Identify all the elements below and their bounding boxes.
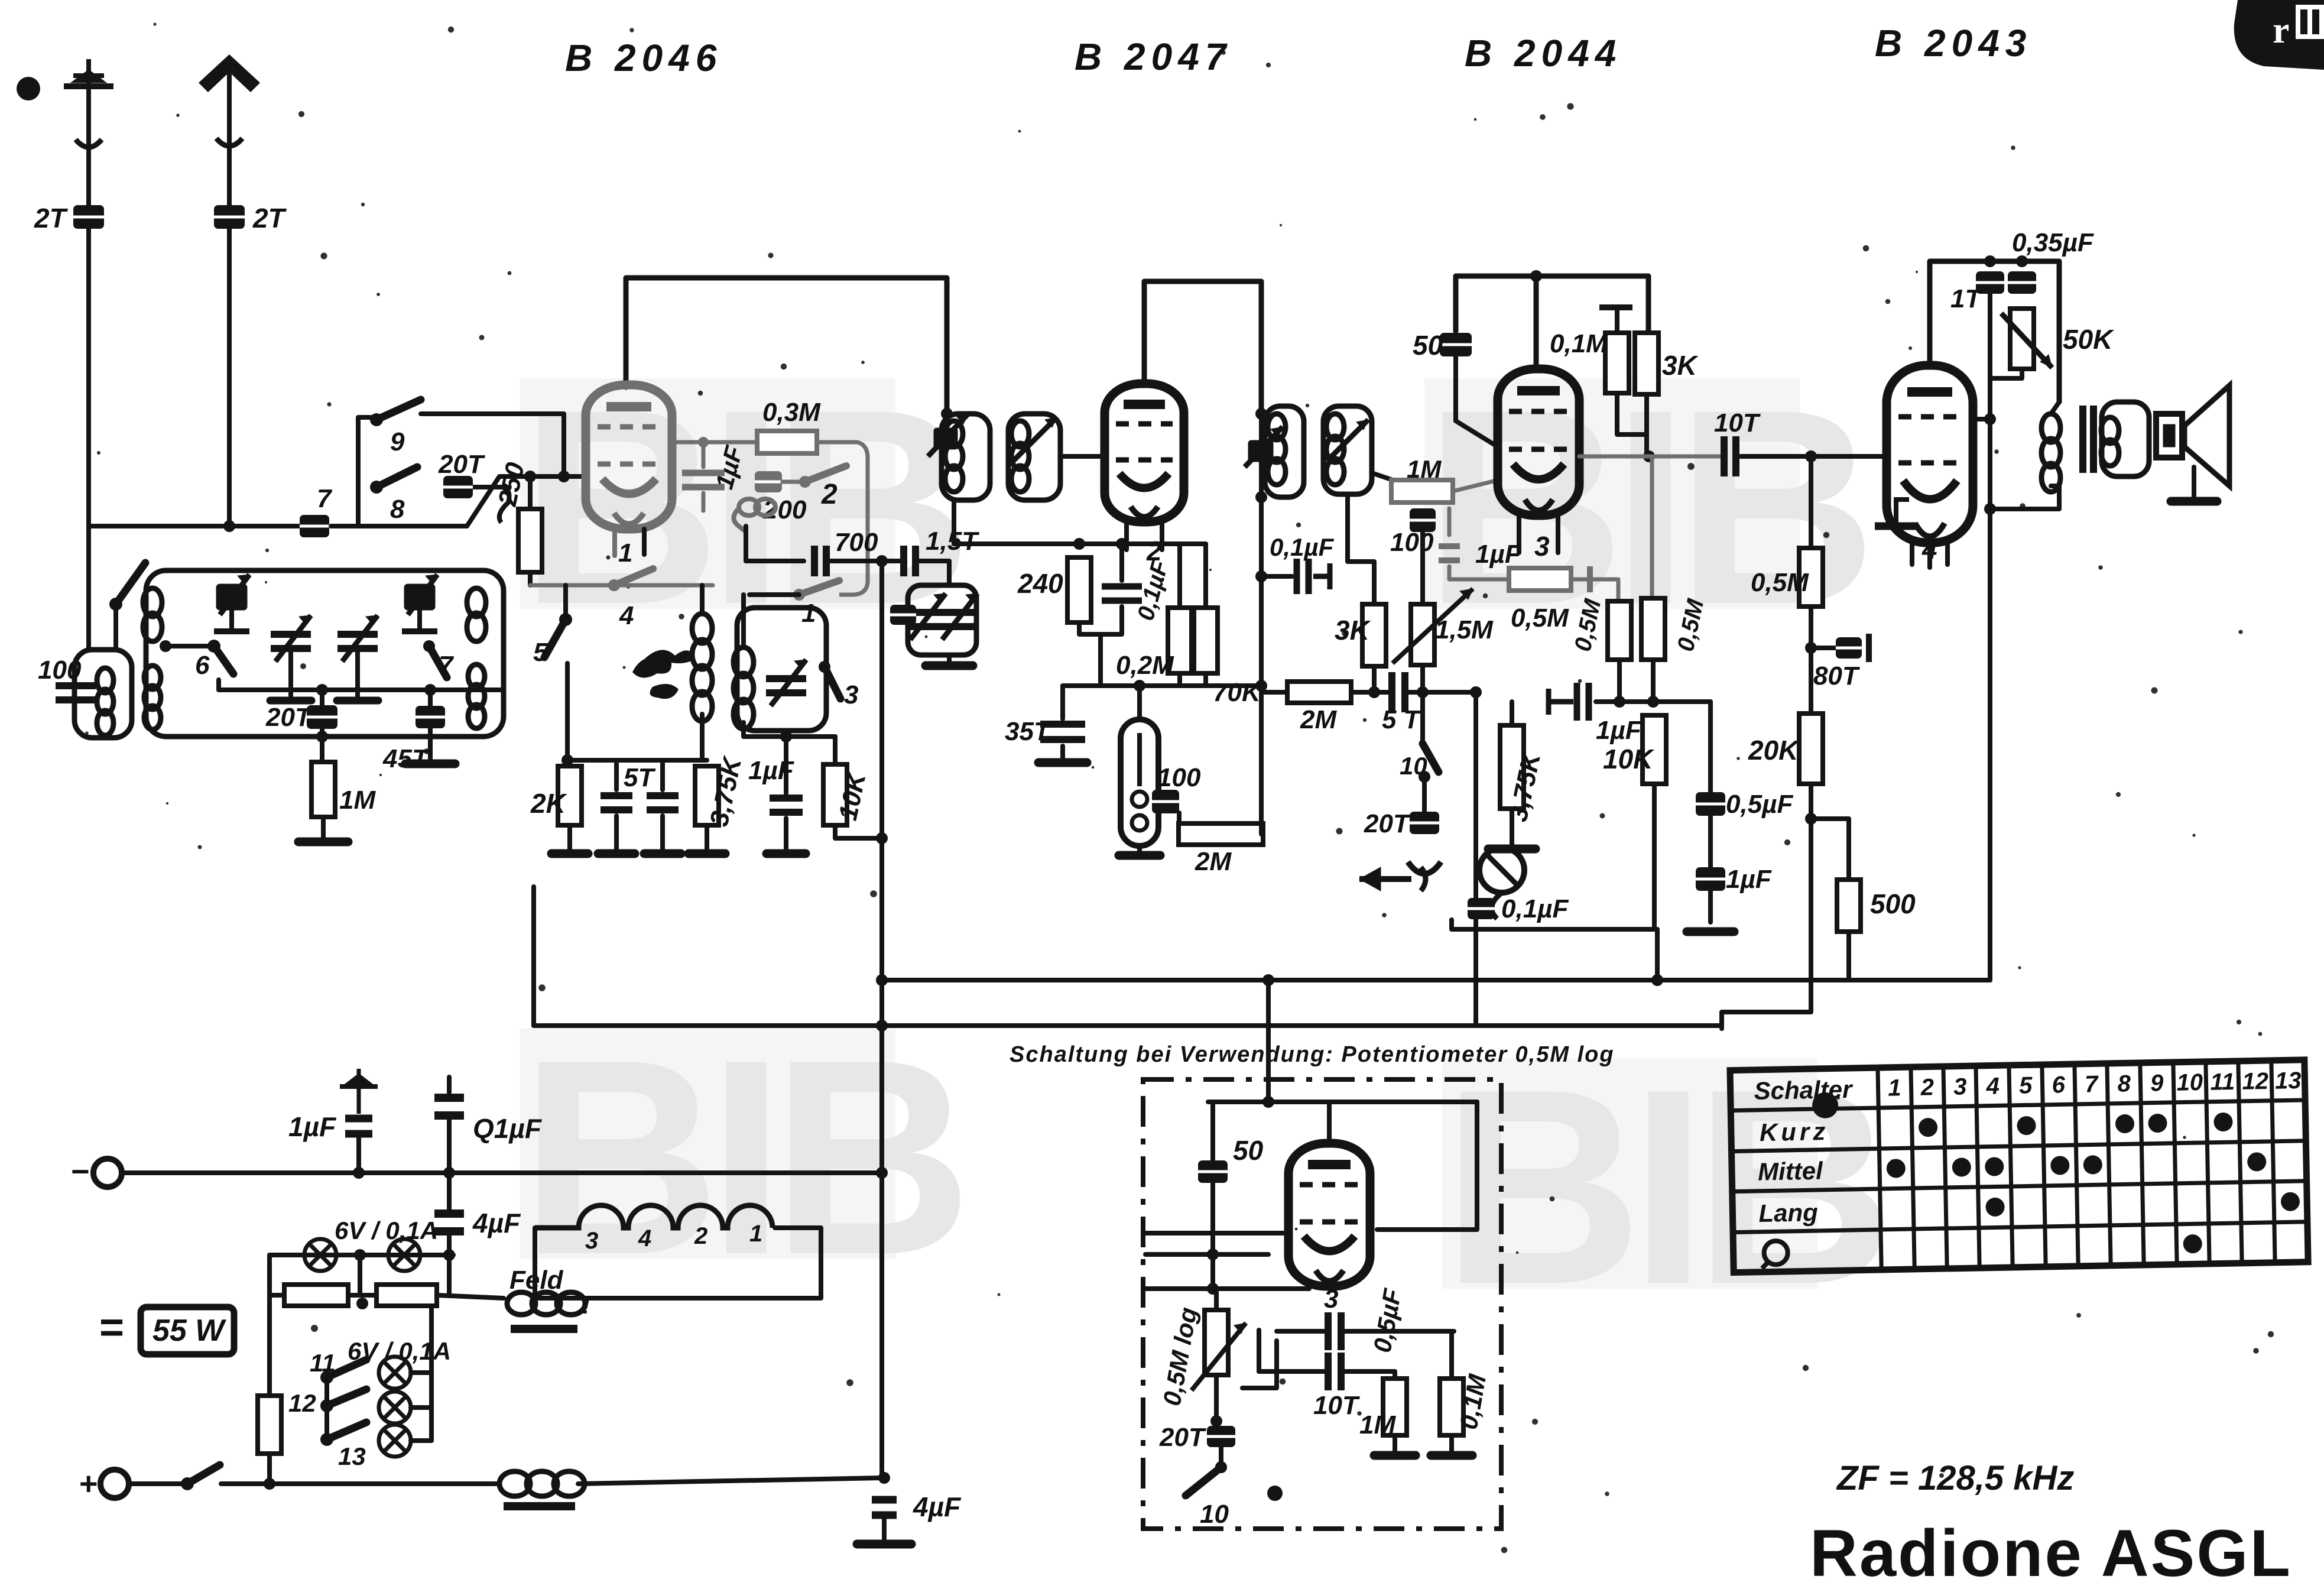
ground varcap 1 — [270, 697, 311, 705]
svg-text:1: 1 — [749, 1221, 762, 1247]
svg-text:2M: 2M — [1300, 705, 1337, 734]
wire pot feed — [1214, 1289, 1219, 1310]
resistor 10K af — [1643, 715, 1666, 784]
svg-text:0,5M: 0,5M — [1511, 604, 1569, 633]
wire switch chain — [324, 1377, 329, 1439]
resistor 0,1M alt — [1440, 1379, 1463, 1435]
dashed box — [1143, 1079, 1501, 1529]
svg-text:13: 13 — [338, 1442, 366, 1470]
junction tube3 anode — [1530, 270, 1542, 282]
variable cap osc — [766, 660, 806, 706]
svg-text:3: 3 — [585, 1228, 598, 1254]
wire 1uF tail — [702, 493, 706, 511]
wire bus heater — [534, 1023, 1722, 1028]
capacitor padder left — [890, 605, 916, 625]
svg-text:r: r — [2273, 9, 2289, 51]
wire tube2 pin b — [1160, 521, 1164, 550]
switch table frame — [1730, 1060, 2308, 1273]
arrow 1,5M — [1393, 589, 1473, 663]
junction osc coil bottom — [780, 731, 792, 742]
junction 3K bottom — [1368, 686, 1380, 698]
capacitor 1uF ps — [345, 1118, 372, 1134]
heater winding — [535, 1205, 772, 1228]
svg-text:1,5M: 1,5M — [1435, 615, 1494, 644]
switch 6 — [207, 640, 233, 674]
logo fragment top right — [2234, 0, 2324, 70]
svg-text:1µF: 1µF — [1726, 865, 1772, 894]
wire pickup bottom — [1452, 920, 1655, 929]
wire heater left leg — [535, 1228, 576, 1298]
wire 3,75K ground stub — [1510, 809, 1514, 845]
trimmer cap band 1 — [214, 575, 249, 631]
wire output primary top — [2051, 402, 2059, 414]
wire shunt row left — [270, 1293, 284, 1298]
svg-text:13: 13 — [2275, 1068, 2302, 1094]
ground 1M — [298, 838, 348, 847]
band coil box — [146, 570, 504, 737]
junction tube4 grid — [1984, 413, 1996, 425]
svg-text:1: 1 — [801, 599, 816, 628]
capacitor 1uF tube3 — [1439, 546, 1460, 560]
antenna 2 hook — [216, 138, 242, 146]
resistor 1M alt — [1383, 1379, 1407, 1435]
wire 1M alt top — [1393, 1371, 1397, 1379]
wire 10K top — [833, 737, 838, 764]
wire 35T ground stub — [1060, 746, 1065, 759]
wire coil tap to switch 6 — [165, 644, 210, 648]
wire dropper bottom — [267, 1454, 272, 1484]
svg-text:0,3M: 0,3M — [762, 398, 821, 427]
svg-text:BIB: BIB — [520, 1002, 963, 1312]
wire main vertical bus — [879, 561, 884, 1477]
band coil winding 1a — [143, 588, 162, 641]
wire 0,1uF stub — [1119, 544, 1124, 581]
wire alt in 3 — [1145, 1286, 1309, 1291]
table dot Kurz 5 — [2017, 1116, 2036, 1136]
table blob — [1812, 1092, 1839, 1118]
wire 70K top stub — [1203, 544, 1208, 608]
wire lamp bus — [270, 1253, 453, 1257]
coil 200 tail — [733, 510, 745, 531]
wire switch 6 down — [219, 680, 504, 690]
svg-text:20T: 20T — [1364, 809, 1411, 838]
antenna 1 hook — [76, 140, 102, 147]
svg-text:12: 12 — [2242, 1068, 2268, 1095]
resistor 3,75K af — [1500, 725, 1524, 809]
svg-text:B 2046: B 2046 — [565, 37, 722, 79]
antenna coupling coil — [97, 668, 113, 735]
svg-text:50K: 50K — [2063, 324, 2114, 355]
wire output primary bottom — [1990, 486, 2059, 509]
wire 1uF to 0,5M — [1449, 566, 1509, 579]
junction alt bottom — [1267, 1486, 1283, 1501]
ground 4uF main — [857, 1540, 911, 1549]
wire cap2 stub — [660, 760, 665, 790]
wire tube5 anode stub — [1327, 1102, 1332, 1144]
wire indicator to 2M — [1177, 813, 1182, 834]
table dot Kurz 9 — [2148, 1114, 2167, 1133]
svg-text:4µF: 4µF — [913, 1491, 962, 1522]
wire 4uF ps stubs — [447, 1173, 452, 1214]
svg-text:1µF: 1µF — [288, 1111, 337, 1142]
svg-text:100: 100 — [1157, 763, 1201, 792]
capacitor 0,5uF — [1696, 792, 1725, 816]
wire lamp4 right — [411, 1405, 431, 1410]
junction bus B+ left — [876, 974, 888, 986]
wire 1,5M bottom stub — [1420, 665, 1425, 692]
junction grid node — [558, 471, 570, 482]
junction dropper bottom — [264, 1478, 275, 1490]
wire feld to heater loop — [576, 1228, 821, 1298]
IF1 secondary trimmer arrow — [1012, 417, 1057, 462]
svg-text:Lang: Lang — [1758, 1198, 1818, 1227]
wire IF2 sec bottom — [1348, 494, 1374, 604]
capacitor 0,1uF pickup — [1468, 898, 1495, 919]
wire varcap 1 stem — [288, 648, 293, 698]
resistor 240 — [1067, 557, 1091, 622]
junction bus B+ right — [1651, 974, 1663, 986]
table dot Kurz 2 — [1919, 1118, 1938, 1137]
choke core bar — [504, 1502, 575, 1510]
wire tube1 pins — [642, 529, 647, 554]
svg-text:70K: 70K — [1213, 678, 1262, 707]
resistor 2M indicator — [1179, 823, 1263, 845]
svg-text:Kurz: Kurz — [1760, 1117, 1829, 1146]
wire shunt right drop — [447, 1255, 452, 1295]
wire IF2 to 1M grid — [1372, 473, 1423, 496]
table dot Lang 13 — [2281, 1192, 2300, 1211]
resistor 1,5M — [1411, 604, 1434, 665]
capacitor 0,35uF b — [2008, 271, 2036, 294]
capacitor 100 indicator — [1152, 790, 1179, 813]
junction switch 4 pivot — [608, 579, 620, 591]
capacitor 0,35uF a — [1976, 271, 2004, 294]
junction 1uF top — [698, 437, 709, 447]
junction 10T wire — [1643, 450, 1655, 462]
wire 35T stub — [1060, 686, 1065, 719]
capacitor 10T — [1724, 436, 1736, 476]
wire right column — [1722, 456, 1811, 1029]
wire 250 stub — [528, 476, 533, 509]
wire 1M alt gnd stub — [1393, 1435, 1397, 1452]
wire IF2 vertical — [1259, 281, 1264, 834]
wire IF1 secondary to grid — [1060, 454, 1104, 459]
wire cathode avc bus — [1063, 683, 1262, 688]
terminal minus — [93, 1159, 122, 1187]
wire 250 to switch4 line — [528, 572, 533, 585]
svg-text:Schaltung bei Verwendung: Pote: Schaltung bei Verwendung: Potentiometer … — [1010, 1042, 1615, 1067]
wire padder ground stub — [947, 655, 952, 663]
ground 3,75K af — [1488, 845, 1536, 854]
IF2 secondary trimmer arrow — [1327, 420, 1368, 461]
table dot Mittel 3 — [1952, 1157, 1972, 1177]
band coil winding 1b — [144, 666, 161, 729]
svg-text:0,2M: 0,2M — [1116, 651, 1174, 680]
wire 100 down to 1,5M — [1420, 532, 1425, 604]
wire 500 drop — [1655, 929, 1660, 980]
wire plus lead — [129, 1481, 184, 1486]
capacitor 50 alt — [1198, 1160, 1228, 1183]
svg-text:50: 50 — [1413, 330, 1443, 361]
capacitor 20T switch 8 — [443, 476, 473, 498]
lamp 3 — [379, 1357, 411, 1389]
wire 1uF ps stub — [356, 1134, 361, 1173]
capacitor 1uF avc — [1577, 683, 1589, 721]
junction cathode bus — [561, 754, 573, 766]
svg-text:Radione ASGL: Radione ASGL — [1810, 1516, 2292, 1589]
svg-text:8: 8 — [2117, 1071, 2131, 1097]
wire 2K ground stub — [567, 825, 572, 851]
switch 4 — [608, 569, 653, 591]
junction 240 top — [1073, 538, 1085, 550]
ground 1M alt — [1374, 1451, 1416, 1460]
resistor 2K — [558, 766, 582, 825]
wire tube4 cathode left — [1927, 543, 1932, 567]
svg-text:1M: 1M — [339, 786, 376, 815]
ground indicator — [1119, 851, 1160, 860]
wire tube1 sg to 0,3M — [671, 440, 757, 445]
ground 45T — [405, 760, 455, 768]
wire tube4 pin a — [1910, 541, 1914, 565]
wire tube2 cathode bus — [954, 541, 1206, 546]
svg-text:Schalter: Schalter — [1754, 1075, 1854, 1105]
svg-text:3: 3 — [1953, 1074, 1967, 1100]
capacitor 0,1uF tube2 — [1102, 586, 1142, 601]
resistor 3K mixer — [1362, 604, 1386, 666]
wire 0,1M alt top — [1449, 1331, 1454, 1379]
table dot Kurz 11 — [2213, 1113, 2233, 1132]
capacitor 1,5T — [904, 546, 916, 576]
wire 240 bottom join — [1079, 607, 1122, 634]
svg-text:5 T: 5 T — [1382, 705, 1421, 734]
capacitor 50 tube3 — [1440, 333, 1472, 356]
wire 5T to 1,5M node — [1408, 690, 1476, 695]
svg-text:0,5M: 0,5M — [1751, 568, 1809, 597]
wire 0,5M b bottom — [1651, 660, 1656, 702]
wire tube4 cathode down — [1988, 509, 1992, 980]
junction 0,35uF a — [1984, 255, 1996, 267]
tube 2 — [1105, 384, 1184, 522]
svg-text:2: 2 — [1920, 1074, 1934, 1100]
wire 0,5uF b right — [1342, 1369, 1395, 1374]
wire 500 bottom — [1846, 932, 1851, 980]
wire 1uF avc link — [1596, 699, 1619, 704]
resistor shunt 2 — [376, 1285, 437, 1306]
table dot Mittel 7 — [2083, 1155, 2102, 1175]
wire 3,75K top — [1510, 702, 1514, 725]
junction IF2 avc — [1255, 680, 1267, 692]
svg-text:10T: 10T — [1714, 408, 1761, 437]
junction 250 top — [524, 471, 536, 482]
svg-text:1µF: 1µF — [748, 756, 794, 785]
junction grid 1M — [1417, 490, 1429, 502]
wire tube2 pin a — [1124, 521, 1129, 550]
wire 0,5uF a left — [1277, 1329, 1327, 1334]
resistor 0,1M tube3 — [1605, 333, 1629, 393]
wire 4uF ps stub bottom — [447, 1231, 452, 1255]
capacitor 1uF grid — [682, 473, 725, 487]
junction bottom bus — [878, 1472, 890, 1484]
wire tube3 pin a — [1517, 514, 1521, 553]
IF1 trimmer arrow — [928, 414, 968, 456]
svg-text:B 2047: B 2047 — [1075, 35, 1232, 78]
svg-text:1: 1 — [618, 539, 632, 567]
wire 0,1M alt gnd stub — [1449, 1435, 1454, 1452]
resistor 0,5M det — [1799, 548, 1823, 607]
wire 3K bottom stub — [1372, 666, 1377, 692]
wire tube2 anode loop — [1144, 281, 1261, 414]
resistor 0,5M tail bar — [1587, 566, 1593, 592]
svg-text:10K: 10K — [1603, 744, 1654, 774]
junction pot bottom — [1210, 1415, 1222, 1427]
svg-text:5: 5 — [533, 638, 548, 667]
switch mains — [181, 1465, 220, 1490]
junction lamp bus b — [443, 1249, 455, 1261]
junction bus vertical top — [876, 555, 888, 567]
box 55W — [141, 1307, 234, 1354]
osc coil box — [737, 608, 826, 731]
switch 3 — [819, 661, 840, 699]
junction 1uF ps — [353, 1167, 365, 1179]
resistor 0,2M — [1168, 608, 1192, 673]
wire lamp group top — [429, 1306, 434, 1373]
wire alt right drop — [1377, 1102, 1477, 1230]
wire plus bus right — [578, 1478, 882, 1484]
antenna coil box — [74, 650, 132, 738]
svg-text:3: 3 — [844, 680, 858, 709]
table dot Mittel 6 — [2050, 1156, 2070, 1175]
svg-text:9: 9 — [2150, 1070, 2164, 1096]
switch 5 — [544, 613, 572, 657]
wire 3K bottom to 10T — [1644, 394, 1649, 456]
resistor 10K — [823, 764, 847, 825]
ground 3,75K osc — [689, 849, 725, 858]
svg-text:1T: 1T — [1950, 284, 1982, 313]
svg-text:7: 7 — [317, 484, 333, 513]
output secondary box — [2102, 402, 2149, 476]
tube 5 alt — [1288, 1143, 1370, 1286]
svg-text:9: 9 — [390, 427, 405, 456]
switch 10 alt — [1186, 1461, 1227, 1496]
wire 45T stub — [428, 690, 433, 706]
IF2 trimmer — [1245, 427, 1283, 467]
junction antenna bus — [223, 520, 235, 532]
svg-text:3: 3 — [1324, 1285, 1338, 1314]
wire 1,5T to trimmer box — [919, 561, 949, 585]
resistor 3K screen — [1635, 333, 1658, 394]
svg-text:11: 11 — [310, 1349, 336, 1377]
wire cap2 ground stub — [660, 816, 665, 851]
capacitor antenna series — [300, 515, 329, 537]
junction heater bus — [876, 1020, 888, 1032]
IF1 secondary box — [1008, 414, 1060, 500]
svg-text:4µF: 4µF — [472, 1208, 521, 1238]
resistor 0,3M — [757, 431, 817, 453]
phono pickup — [1479, 848, 1524, 919]
junction sw10 alt — [1215, 1461, 1227, 1473]
svg-text:2T: 2T — [252, 203, 287, 234]
wire 0,2M bottom stub — [1177, 673, 1182, 686]
junction bus B+ mid — [1262, 974, 1274, 986]
wire tube4 grid link — [1973, 417, 1990, 421]
ground 1uF osc — [767, 849, 806, 858]
capacitor 1uF output — [1696, 867, 1725, 891]
wire IF1 bottom left — [952, 500, 956, 544]
junction 0,5M pair — [1614, 696, 1625, 708]
IF2 primary box — [1265, 406, 1304, 497]
switch 9 — [370, 400, 421, 426]
wire lamp group left drop — [267, 1295, 272, 1396]
wire 10T row — [1579, 455, 1719, 459]
wire 10K bottom to AVC — [835, 825, 878, 838]
junction alt top — [1262, 1096, 1274, 1108]
band coil winding 2b — [468, 664, 485, 728]
svg-text:ZF = 128,5 kHz: ZF = 128,5 kHz — [1836, 1459, 2074, 1497]
svg-text:11: 11 — [2210, 1069, 2235, 1095]
svg-text:10T: 10T — [1313, 1391, 1360, 1420]
junction 500 branch — [1805, 813, 1817, 825]
wire 1uF stub — [702, 442, 706, 467]
switch 10 main — [1423, 744, 1439, 772]
junction tube4 cathode — [1984, 503, 1996, 515]
switch table grid — [1730, 1060, 2308, 1273]
wire cathode node down — [1098, 634, 1103, 686]
wire 50 to in — [1210, 1183, 1215, 1289]
svg-text:1M: 1M — [1407, 455, 1442, 483]
wire switch1 to coil — [749, 592, 799, 597]
wire osc coupling row — [746, 559, 804, 563]
svg-text:7: 7 — [439, 651, 455, 680]
svg-text:Q1µF: Q1µF — [473, 1113, 543, 1144]
junction IF2 top — [1255, 408, 1267, 420]
wire 0,5M pair bottom — [1619, 660, 1710, 702]
speaker — [2156, 385, 2229, 486]
wire antenna bus to grid — [331, 476, 586, 526]
junction coil box bottom — [316, 731, 328, 742]
svg-text:50: 50 — [1233, 1135, 1264, 1166]
antenna 1 symbol — [64, 59, 113, 90]
wire alt in 2 — [1145, 1252, 1268, 1257]
svg-text:+: + — [79, 1466, 98, 1502]
junction 0,1uF ps — [443, 1167, 455, 1179]
switch 13 — [320, 1422, 366, 1446]
wire antenna 2 lead-in — [227, 71, 232, 526]
capacitor 1uF osc — [770, 798, 803, 812]
wire alt 50 stub — [1210, 1102, 1215, 1160]
resistor 50K — [2010, 309, 2034, 369]
capacitor 20T alt — [1207, 1426, 1235, 1447]
svg-text:80T: 80T — [1813, 661, 1860, 690]
capacitor 80T — [1836, 637, 1862, 659]
wire 5T cap ground stub — [614, 816, 619, 851]
table dot Mittel 12 — [2247, 1152, 2267, 1172]
output transformer primary — [2041, 414, 2060, 492]
svg-text:5T: 5T — [624, 763, 655, 792]
wire lamp bus left drop — [267, 1255, 272, 1295]
wire 0,5uF a right — [1342, 1329, 1454, 1334]
wire 45T to ground — [428, 727, 433, 761]
wire switch 5 down — [565, 663, 570, 760]
wire 1M to ground — [321, 817, 326, 839]
junction 80T — [1805, 642, 1817, 654]
capacitor 1uF avc tail — [1549, 689, 1573, 715]
wire tube3 screen loop — [1456, 276, 1536, 331]
svg-text:1M: 1M — [1359, 1410, 1396, 1439]
wire 80T stub — [1811, 646, 1836, 650]
ground 2K — [551, 849, 588, 858]
lamp 2 — [388, 1239, 420, 1271]
variable cap band 2 — [337, 615, 378, 661]
